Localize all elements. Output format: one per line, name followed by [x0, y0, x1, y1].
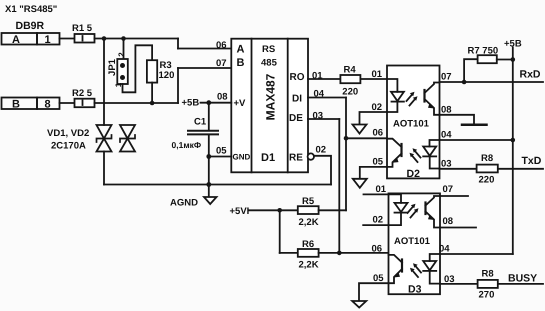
svg-text:04: 04 [441, 130, 452, 141]
svg-text:D3: D3 [408, 284, 422, 296]
svg-text:VD1, VD2: VD1, VD2 [47, 128, 89, 139]
pin 03 label D2 [441, 159, 452, 170]
resistor R7 [464, 46, 513, 83]
suppressor VD1 [97, 39, 112, 185]
resistor R1 [72, 23, 95, 43]
ground D3 pin05 [352, 301, 366, 308]
connector X1 title [5, 4, 57, 15]
svg-text:A: A [237, 44, 245, 56]
svg-text:DB9R: DB9R [16, 20, 45, 32]
wire DI net [308, 89, 346, 211]
pin 04 label D2 [441, 130, 452, 141]
power +5B right [504, 39, 522, 60]
svg-text:08: 08 [443, 216, 454, 227]
svg-text:07: 07 [441, 72, 452, 83]
svg-text:D2: D2 [407, 168, 421, 180]
wire R5 to DI [319, 209, 346, 211]
signal RxD [520, 69, 541, 81]
svg-text:AGND: AGND [170, 198, 198, 209]
D3 light arrows bottom [410, 263, 421, 277]
svg-text:2,2K: 2,2K [299, 217, 319, 228]
svg-text:B: B [237, 57, 245, 69]
svg-text:01: 01 [376, 184, 387, 195]
svg-text:06: 06 [372, 244, 383, 255]
power +5VI label [230, 206, 280, 217]
svg-text:R8: R8 [482, 269, 494, 280]
wire A to R1 [60, 38, 75, 40]
resistor R6 [280, 239, 319, 271]
pin RE bubble [308, 153, 314, 159]
wire GND pin [209, 156, 232, 158]
svg-text:270: 270 [479, 290, 495, 301]
pin 02 label D3 [373, 215, 384, 226]
pin 03 label D3 [444, 274, 455, 285]
svg-text:485: 485 [261, 58, 278, 69]
wire B to R2 [60, 102, 75, 104]
wire R6 to D3 pin06 [319, 252, 389, 254]
pin 07 label [216, 58, 227, 69]
svg-text:0,1мкФ: 0,1мкФ [172, 140, 202, 150]
ground AGND [170, 185, 217, 209]
pin 08 label D2 [441, 105, 452, 116]
svg-text:8: 8 [45, 99, 51, 111]
svg-text:2,2K: 2,2K [299, 260, 319, 271]
wire D3 pin07 stub [440, 195, 468, 197]
node +V C1 [206, 100, 211, 105]
wire D2 pin02 to ground [360, 112, 388, 125]
svg-text:MAX487: MAX487 [263, 73, 277, 120]
wire D3 pin02 stub [363, 224, 388, 226]
label VD1 VD2 value [47, 128, 89, 152]
wire JP1 drop [123, 39, 125, 60]
svg-text:R4: R4 [344, 65, 357, 76]
D2 LED bottom [423, 140, 439, 169]
wire R3 to B-line [151, 83, 153, 103]
connector pin A box [2, 33, 60, 46]
svg-text:2: 2 [117, 52, 126, 57]
wire D2 pin06 [346, 137, 387, 139]
svg-text:220: 220 [479, 175, 495, 186]
D3 light arrows top [408, 204, 419, 218]
svg-text:07: 07 [216, 58, 227, 69]
wire RxD line [440, 81, 544, 83]
capacitor C1 [172, 103, 219, 185]
svg-text:TxD: TxD [522, 155, 542, 167]
ground D2 pin05 [353, 179, 367, 188]
svg-text:B: B [12, 99, 20, 111]
wire D2 pin05 to ground [360, 167, 387, 179]
pin 06 label D3 [372, 244, 383, 255]
wire DE net [308, 111, 339, 253]
svg-text:1: 1 [45, 34, 51, 46]
wire R1 to MAX487 A-line [95, 39, 232, 49]
svg-text:AOT101: AOT101 [394, 236, 431, 247]
resistor R5 [280, 196, 319, 228]
node pin04 +5B [511, 138, 516, 143]
svg-text:06: 06 [216, 40, 227, 51]
optocoupler D3 AOT101 [389, 193, 441, 295]
svg-text:08: 08 [441, 105, 452, 116]
pin 05 label [216, 146, 227, 157]
svg-text:+5B: +5B [182, 98, 200, 109]
wire TxD line [440, 168, 544, 170]
svg-text:R1 5: R1 5 [72, 23, 93, 34]
wire RE to AGND [314, 145, 331, 185]
pin 07 label D3 [443, 184, 454, 195]
signal BUSY [508, 273, 537, 285]
node A-VD1 [102, 36, 107, 41]
D2 phototransistor top [425, 83, 440, 115]
wire D3 pin01 stub [364, 193, 389, 195]
node A-JP1 [121, 36, 126, 41]
svg-text:X1 "RS485": X1 "RS485" [5, 4, 57, 15]
ground D2 pin08 [462, 124, 487, 127]
svg-text:220: 220 [342, 87, 358, 98]
svg-text:JP1: JP1 [107, 58, 118, 76]
pin 01 label D3 [376, 184, 387, 195]
resistor R3 [147, 60, 174, 83]
D2 light arrows bottom [410, 148, 421, 162]
ground D2 pin02 [353, 125, 367, 134]
power +5B MAX [182, 98, 232, 109]
D3 phototransistor bottom [389, 255, 403, 283]
svg-text:AOT101: AOT101 [393, 119, 430, 130]
node B-R3 [150, 101, 155, 106]
resistor R8 BUSY [478, 269, 498, 301]
node DE-R6 [337, 251, 342, 256]
wire +5VI down [279, 210, 281, 253]
optocoupler D2 AOT101 [387, 66, 440, 181]
wire D2 pin08 to ground [440, 115, 475, 124]
svg-text:RS: RS [262, 44, 275, 55]
wire R2 to MAX487 B-line [95, 68, 232, 103]
D2 light arrows top [407, 92, 418, 106]
wire AGND rail [104, 184, 331, 186]
node R7 +5B [511, 57, 516, 62]
resistor R4 [340, 65, 360, 98]
node DI-D2pin06 [344, 136, 349, 141]
wire JP1 to R3 [123, 45, 153, 92]
svg-text:04: 04 [439, 244, 450, 255]
pin 05 label D2 [373, 157, 384, 168]
resistor R2 [72, 88, 95, 107]
svg-text:C1: C1 [194, 117, 207, 128]
svg-text:DI: DI [292, 94, 302, 105]
pin 02 label D2 [372, 102, 383, 113]
svg-text:DE: DE [289, 113, 303, 124]
D3 phototransistor top [426, 196, 441, 228]
D3 LED top [389, 194, 408, 225]
svg-text:02: 02 [316, 145, 327, 156]
resistor R8 TxD [477, 153, 498, 186]
svg-text:+5VI: +5VI [230, 206, 250, 217]
pin 04 label D3 [439, 244, 450, 255]
node GND-C1 [206, 154, 211, 159]
pin 08 label [217, 92, 228, 103]
connector DB9R label [16, 20, 45, 32]
wire D3 pin08 stub [440, 227, 476, 229]
svg-text:08: 08 [217, 92, 228, 103]
node +5VI split [277, 208, 282, 213]
svg-text:R8: R8 [481, 153, 493, 164]
signal TxD [522, 155, 542, 167]
D3 LED bottom [423, 254, 440, 284]
svg-text:BUSY: BUSY [508, 273, 537, 285]
pin 07 label D2 [441, 72, 452, 83]
svg-text:05: 05 [373, 157, 384, 168]
IC D1 MAX487 [231, 39, 308, 173]
pin 06 label D2 [373, 128, 384, 139]
wire D2 pin04 to +5B [440, 139, 513, 141]
svg-text:RE: RE [289, 153, 303, 164]
svg-text:07: 07 [443, 184, 454, 195]
svg-text:GND: GND [233, 153, 251, 162]
wire R4 to D2 pin01 [360, 69, 387, 80]
svg-text:A: A [12, 34, 20, 46]
svg-text:02: 02 [373, 215, 384, 226]
svg-text:03: 03 [441, 159, 452, 170]
jumper JP1 [107, 52, 128, 88]
D2 LED top [387, 79, 404, 112]
wire RO to R4 [308, 71, 340, 82]
wire +5B rail down [512, 60, 514, 255]
svg-text:D1: D1 [261, 152, 275, 164]
pin 06 label [216, 40, 227, 51]
pin 08 label D3 [443, 216, 454, 227]
svg-text:RxD: RxD [520, 69, 541, 81]
pin 05 label D3 [373, 273, 384, 284]
svg-text:2C170A: 2C170A [51, 141, 86, 152]
wire +5B to D3 pin04 [440, 253, 513, 255]
svg-text:06: 06 [373, 128, 384, 139]
svg-text:R2 5: R2 5 [72, 88, 93, 99]
svg-text:05: 05 [216, 146, 227, 157]
svg-text:RO: RO [290, 72, 305, 83]
connector pin B box [2, 98, 60, 111]
svg-text:+V: +V [234, 98, 247, 109]
node AGND-C1 [206, 182, 211, 187]
wire BUSY line [440, 283, 543, 285]
svg-text:120: 120 [159, 70, 175, 81]
suppressor VD2 [120, 125, 135, 152]
wire D3 pin05 to ground [359, 283, 389, 301]
node R7-RxD [462, 80, 467, 85]
D2 phototransistor bottom [387, 139, 402, 167]
